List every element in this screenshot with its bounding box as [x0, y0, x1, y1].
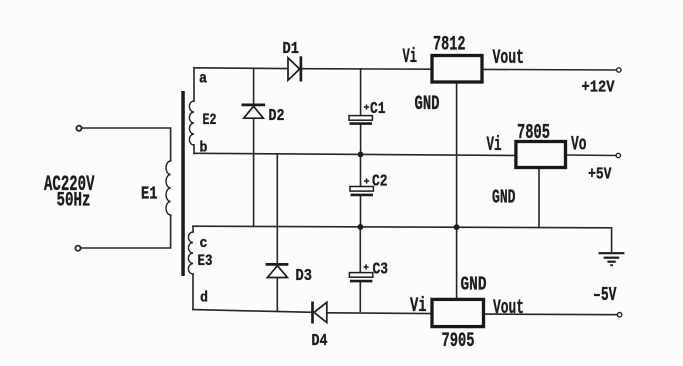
terminal +5V [616, 153, 620, 157]
wire 7805 Vo to +5V terminal [566, 154, 616, 157]
capacitor C3 [349, 264, 372, 281]
wire branch D2 lower: D2 anode to rail c [253, 119, 255, 227]
svg-text:Vo: Vo [571, 133, 587, 156]
wire branch D3 lower: D3 anode to rail d [276, 278, 278, 312]
wire node d lead: coil bottom to rail d [192, 274, 194, 310]
wire branch C3 lower: C3 - plate to rail d [359, 282, 361, 311]
transformer core [181, 91, 185, 276]
junction node C1/rail b [358, 152, 364, 158]
svg-text:D4: D4 [312, 332, 328, 351]
wire rail a: a to D1 anode [194, 67, 288, 70]
svg-text:b: b [200, 140, 208, 157]
svg-text:C3: C3 [373, 260, 389, 279]
AC source terminal top [76, 126, 81, 131]
wire rail d: d to D4 cathode [193, 310, 312, 313]
svg-text:E2: E2 [203, 111, 217, 129]
svg-text:7905: 7905 [442, 330, 475, 353]
wire node b lead: coil bottom to rail b [193, 145, 195, 153]
wire branch C3 upper: rail c to C3 + plate [359, 227, 361, 274]
transformer primary coil E1 [166, 161, 171, 215]
svg-text:–5V: –5V [593, 284, 617, 306]
wire rail a: D1 cathode to 7812 Vi [302, 68, 433, 71]
regulator U2 7805 [516, 142, 566, 168]
svg-text:Vi: Vi [410, 295, 427, 318]
wire branch C1 lower: C1 - plate to rail b [360, 124, 362, 155]
capacitor C1 [349, 104, 372, 123]
wire branch D3 upper: rail b to D3 cathode [276, 154, 278, 264]
svg-text:+5V: +5V [588, 166, 612, 185]
svg-text:Vi: Vi [487, 134, 502, 157]
diode D3 [266, 264, 289, 277]
wire GND line of 7812 down to 7905 [456, 82, 458, 299]
svg-text:E1: E1 [141, 185, 158, 205]
diode D1 [288, 56, 301, 81]
svg-text:GND: GND [461, 274, 487, 296]
terminal +12V [617, 68, 621, 72]
svg-text:D3: D3 [296, 267, 313, 286]
svg-text:7805: 7805 [517, 122, 550, 145]
junction node C2/rail c [358, 224, 364, 230]
svg-text:C1: C1 [370, 100, 386, 119]
svg-text:Vi: Vi [403, 46, 418, 69]
wire branch C1 upper: rail a to C1 + plate [360, 69, 362, 116]
wire branch C2 upper: rail b to C2 + plate [360, 154, 362, 186]
svg-text:a: a [199, 70, 207, 88]
wire AC top lead [81, 128, 170, 161]
transformer secondary coil E3 [188, 232, 193, 274]
svg-text:GND: GND [492, 186, 516, 208]
wire rail d: D4 anode to 7905 Vi [327, 312, 432, 315]
capacitor C2 [350, 178, 373, 195]
svg-text:+12V: +12V [582, 78, 616, 97]
svg-text:Vout: Vout [493, 297, 524, 320]
svg-text:d: d [200, 290, 208, 307]
wire 7905 Vout to -5V terminal [484, 313, 618, 316]
wire node a lead: coil top to rail a [193, 68, 195, 101]
wire rail b: b to 7805 Vi [194, 153, 516, 155]
wire rail c: c to ground corner [193, 226, 612, 252]
AC source terminal bottom [75, 246, 80, 251]
ground symbol [599, 253, 625, 265]
svg-text:D1: D1 [283, 40, 300, 59]
diode D4 [313, 302, 327, 324]
regulator U3 7905 [432, 299, 484, 326]
wire branch C2 lower: C2 - plate to rail c [360, 196, 362, 227]
regulator U1 7812 [432, 56, 482, 83]
wire node c lead: coil top to rail c [192, 226, 194, 232]
svg-text:GND: GND [415, 93, 440, 116]
wire 7812 Vout to +12V terminal [482, 68, 616, 71]
wire AC bottom lead [80, 215, 170, 248]
svg-text:Vout: Vout [493, 47, 525, 70]
svg-text:E3: E3 [198, 252, 213, 270]
svg-text:c: c [200, 235, 208, 252]
wire GND line of 7805 [538, 168, 540, 228]
junction node GND line/rail c [454, 224, 460, 230]
svg-text:50Hz: 50Hz [57, 190, 91, 213]
terminal -5V [617, 313, 621, 317]
wire branch D2 upper: rail a to D2 cathode [253, 68, 255, 104]
svg-text:7812: 7812 [433, 33, 466, 56]
diode D2 [242, 105, 266, 118]
svg-text:C2: C2 [372, 173, 388, 192]
svg-text:D2: D2 [269, 107, 285, 126]
transformer secondary coil E2 [189, 101, 194, 145]
